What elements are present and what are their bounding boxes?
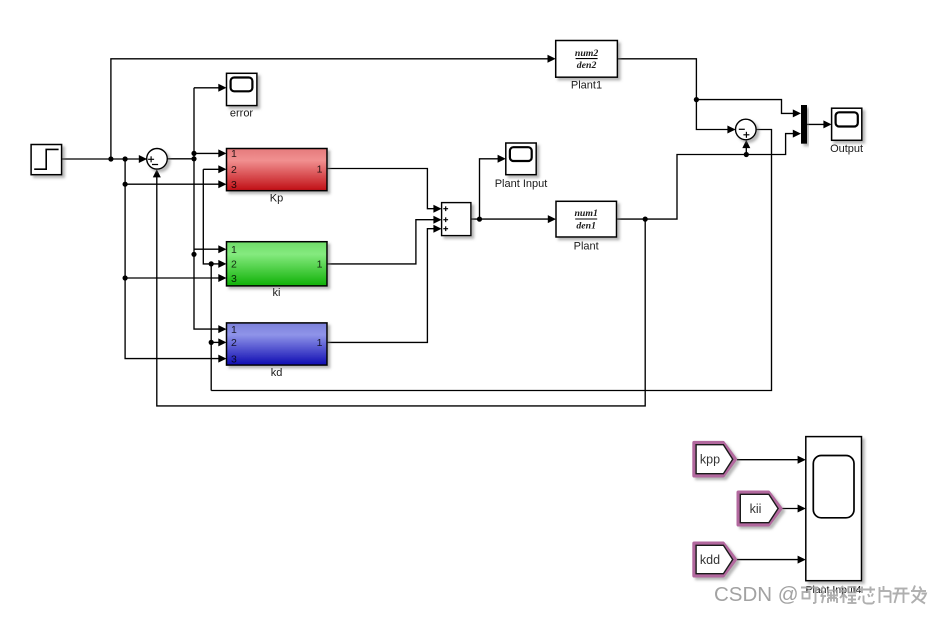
svg-text:ki: ki — [273, 287, 281, 299]
svg-text:Output: Output — [830, 143, 863, 155]
svg-text:2: 2 — [231, 337, 237, 349]
svg-text:1: 1 — [317, 163, 323, 175]
svg-text:kii: kii — [750, 502, 762, 516]
svg-text:1: 1 — [231, 244, 237, 256]
svg-text:error: error — [230, 108, 254, 120]
svg-text:kdd: kdd — [700, 553, 720, 567]
svg-text:num1: num1 — [574, 208, 597, 219]
svg-text:3: 3 — [231, 353, 237, 365]
svg-text:Plant: Plant — [574, 240, 599, 252]
svg-text:1: 1 — [317, 259, 323, 271]
svg-text:Plant1: Plant1 — [571, 79, 602, 91]
svg-text:den2: den2 — [577, 60, 597, 71]
svg-text:Kp: Kp — [270, 192, 283, 204]
svg-text:3: 3 — [231, 179, 237, 191]
svg-text:kd: kd — [271, 367, 283, 379]
svg-text:1: 1 — [317, 337, 323, 349]
svg-text:1: 1 — [231, 324, 237, 336]
svg-text:Plant Input: Plant Input — [495, 178, 548, 190]
svg-text:kpp: kpp — [700, 453, 720, 467]
svg-text:den1: den1 — [576, 221, 596, 232]
svg-text:3: 3 — [231, 273, 237, 285]
svg-text:2: 2 — [231, 164, 237, 176]
svg-text:CSDN @: CSDN @ — [714, 583, 799, 606]
svg-text:1: 1 — [231, 148, 237, 160]
svg-text:2: 2 — [231, 259, 237, 271]
svg-text:num2: num2 — [575, 48, 599, 59]
